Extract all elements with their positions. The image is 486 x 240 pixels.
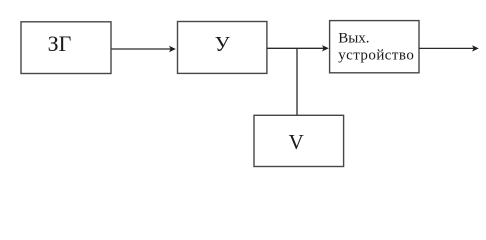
block V (voltmeter) [254, 115, 344, 166]
block U (amplifier) [178, 22, 267, 74]
svg-text:Вых.: Вых. [338, 30, 369, 46]
svg-text:устройство: устройство [338, 48, 414, 64]
block output device (Vykh. ustroystvo) [330, 21, 419, 73]
wire ZG to U [112, 46, 176, 52]
svg-text:У: У [215, 32, 230, 56]
wire output arrow [419, 45, 479, 51]
svg-text:V: V [289, 130, 304, 154]
wire junction down to V [296, 48, 298, 115]
block ZG (master oscillator) [21, 22, 111, 74]
wire U to output device [267, 45, 329, 51]
svg-text:ЗГ: ЗГ [48, 31, 72, 56]
